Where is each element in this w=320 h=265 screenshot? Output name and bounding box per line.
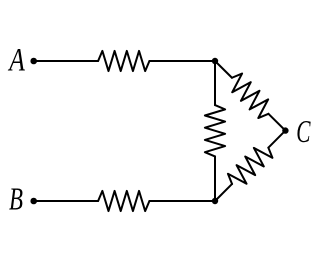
wire R3 to bottom junction xyxy=(214,156,216,201)
svg-text:A: A xyxy=(8,42,26,78)
wire R2 to bottom junction xyxy=(149,200,215,202)
wire top junction to R4 xyxy=(215,61,232,78)
resistor R1 xyxy=(98,51,149,71)
wire B to R2 xyxy=(34,200,98,202)
svg-text:C: C xyxy=(296,114,311,149)
junction dot top xyxy=(212,58,218,64)
wire A to R1 xyxy=(34,60,98,62)
junction dot bottom xyxy=(212,198,218,204)
wire R4 to node C xyxy=(268,114,285,131)
wire bottom junction to R5 xyxy=(215,184,232,201)
wire R5 to node C xyxy=(268,131,285,148)
resistor R2 xyxy=(98,191,149,211)
svg-text:B: B xyxy=(9,181,23,216)
node C dot xyxy=(282,127,288,133)
wire R1 to top junction xyxy=(149,60,215,62)
wire top junction to R3 xyxy=(214,61,216,105)
resistor R5 xyxy=(228,148,273,184)
terminal dot A xyxy=(30,58,37,65)
resistor R4 xyxy=(232,74,269,118)
terminal dot B xyxy=(30,198,37,205)
resistor R3 xyxy=(205,105,225,156)
